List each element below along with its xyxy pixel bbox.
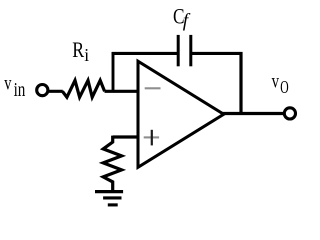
svg-text:i: i bbox=[84, 45, 89, 65]
wire feedback right vertical down to output bbox=[239, 52, 242, 114]
svg-text:f: f bbox=[183, 11, 191, 32]
svg-text:R: R bbox=[72, 37, 84, 62]
svg-text:v: v bbox=[272, 69, 280, 93]
resistor R2 vertical bbox=[103, 136, 121, 191]
label vin bbox=[4, 71, 25, 101]
wire Ri to op-amp inverting input bbox=[105, 90, 139, 93]
ground bbox=[95, 192, 123, 205]
resistor Ri bbox=[62, 80, 104, 97]
label Cf bbox=[173, 3, 191, 31]
capacitor Cf bbox=[178, 35, 191, 66]
wire feedback top left to Cf bbox=[112, 52, 178, 55]
wire noninverting input bbox=[113, 135, 138, 138]
svg-text:v: v bbox=[4, 71, 11, 95]
node vo terminal bbox=[284, 108, 295, 119]
wire vin to Ri bbox=[48, 90, 63, 93]
wire Cf to feedback right vertical bbox=[191, 52, 243, 55]
op-amp plus sign bbox=[144, 130, 159, 146]
svg-text:O: O bbox=[280, 77, 288, 97]
wire feedback left vertical bbox=[112, 52, 115, 91]
svg-text:in: in bbox=[14, 79, 26, 101]
node vin terminal bbox=[37, 85, 48, 96]
label Ri bbox=[72, 37, 89, 65]
op-amp minus sign bbox=[145, 87, 161, 89]
label vo bbox=[272, 69, 289, 98]
op-amp U1 bbox=[138, 61, 224, 167]
wire op-amp output bbox=[223, 112, 284, 115]
